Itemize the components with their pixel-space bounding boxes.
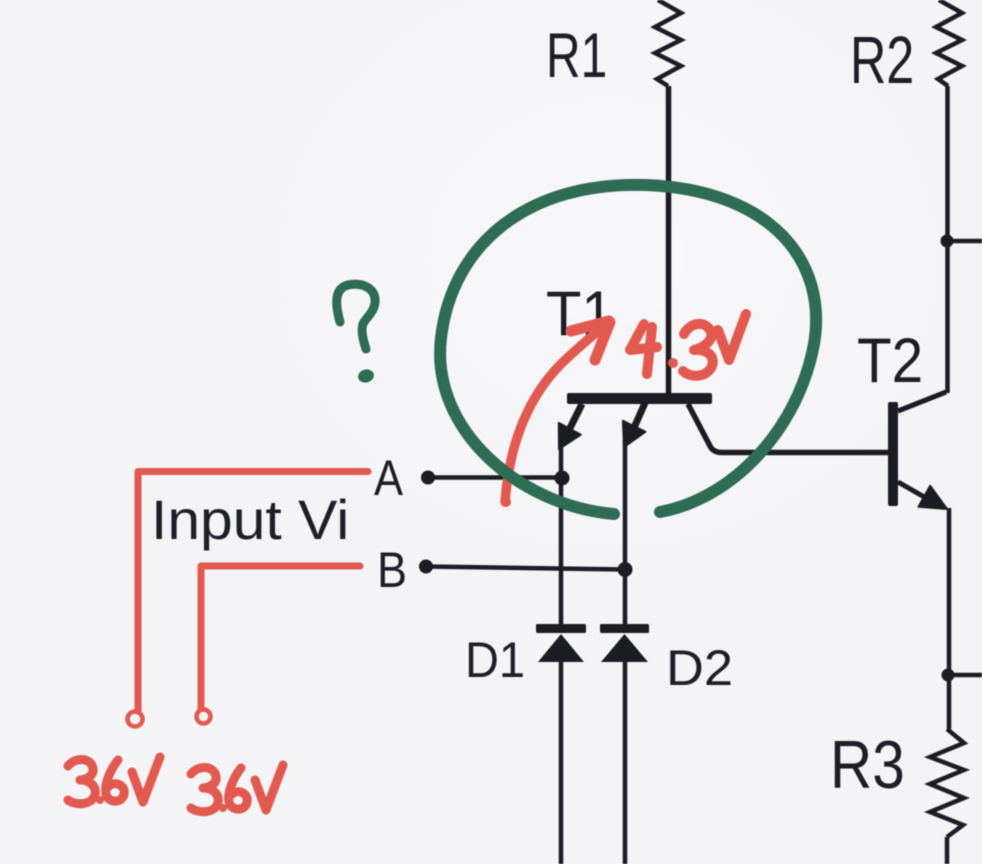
svg-text:R1: R1 <box>546 20 607 91</box>
wire R2 down right rail <box>945 86 950 393</box>
transistor T2 <box>888 392 947 509</box>
transistor T1 (multi-emitter) <box>559 393 712 449</box>
junction dot upper right rail <box>941 235 954 248</box>
red annotation: handwritten 3.6V left <box>68 757 160 804</box>
svg-text:Input Vi: Input Vi <box>151 489 349 551</box>
wire emitter A vertical to D1 and bottom <box>559 441 564 625</box>
svg-text:D2: D2 <box>666 640 733 696</box>
wire R1 to T1 base <box>666 86 672 394</box>
node B junction dot <box>618 562 633 577</box>
diode D2 <box>600 624 649 662</box>
resistor R3 <box>930 729 964 837</box>
red annotation: wire from node A <box>138 472 368 712</box>
wire node B horizontal <box>426 567 625 570</box>
svg-text:B: B <box>377 543 407 599</box>
wire node A horizontal <box>428 475 562 480</box>
red annotation: open terminal circle A <box>128 712 143 727</box>
wire T2 emitter down right rail <box>947 508 952 729</box>
svg-text:T2: T2 <box>857 325 923 395</box>
junction dot lower right rail <box>942 669 955 682</box>
resistor R1 <box>655 0 681 86</box>
wire branch right at lower node <box>946 673 982 678</box>
svg-text:D1: D1 <box>465 633 525 689</box>
wire emitter B vertical to D2 and bottom <box>623 440 628 625</box>
node B input dot <box>419 560 433 574</box>
red annotation: open terminal circle B <box>197 710 211 724</box>
diode D1 <box>536 624 586 662</box>
svg-text:A: A <box>374 450 404 505</box>
wire below D2 to bottom edge <box>623 661 628 864</box>
resistor R2 <box>936 0 962 86</box>
wire branch right at node <box>945 239 982 244</box>
red annotation: wire from node B <box>201 566 360 708</box>
wire T1 collector to T2 base <box>688 404 888 453</box>
wire below D1 to bottom edge <box>559 661 564 864</box>
red annotation: handwritten 3.6V right <box>191 765 283 812</box>
node A junction dot <box>555 471 570 486</box>
wire R3 to bottom edge <box>945 837 950 864</box>
red annotation: handwritten 4.3V <box>630 314 746 376</box>
node A input dot <box>421 471 435 485</box>
svg-text:R2: R2 <box>850 22 914 98</box>
green annotation: question mark <box>337 284 375 349</box>
svg-text:R3: R3 <box>830 728 905 803</box>
green annotation: circle around T1 <box>440 185 816 514</box>
red annotation: curved arrow to T1 <box>505 321 610 502</box>
